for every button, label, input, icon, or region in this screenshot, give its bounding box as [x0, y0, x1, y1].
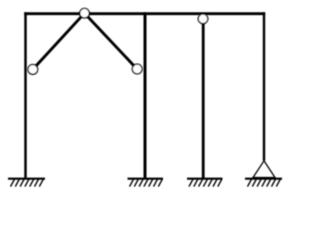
- pin support ground line: [245, 178, 282, 180]
- fixed support 1 ground line: [8, 178, 45, 180]
- top beam: [24, 12, 265, 15]
- left diagonal brace: [33, 13, 85, 69]
- right column: [263, 12, 265, 161]
- hinge circle middle: [132, 64, 142, 74]
- fixed support 3 ground line: [187, 178, 223, 180]
- hinged column (third): [202, 19, 205, 179]
- hinge circle left column: [28, 65, 38, 75]
- hinge circle top center: [80, 8, 90, 18]
- fixed support 2 hatching: [130, 179, 163, 186]
- middle column (second): [144, 12, 147, 178]
- fixed support 3 hatching: [189, 179, 222, 186]
- pin support hatching: [248, 179, 281, 186]
- hinge circle below beam: [198, 14, 208, 24]
- pin support triangle: [253, 161, 275, 178]
- fixed support 2 ground line: [128, 178, 164, 180]
- left column: [24, 12, 27, 178]
- fixed support 1 hatching: [11, 179, 44, 186]
- right diagonal brace: [85, 13, 138, 69]
